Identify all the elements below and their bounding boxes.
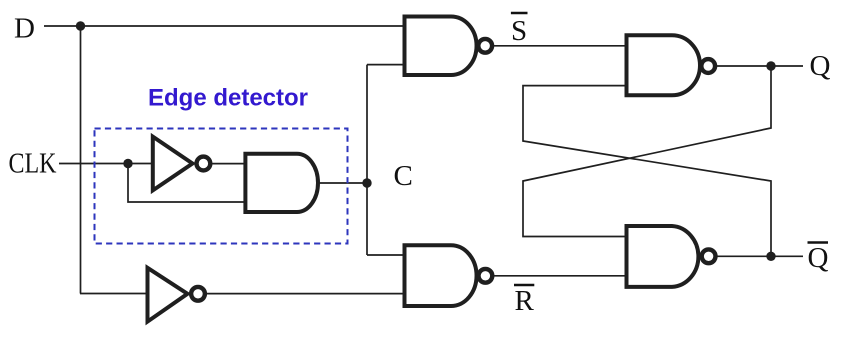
wire feedback Q-bar to NAND3 input B: [523, 86, 771, 257]
wire CLK input lead: [59, 163, 154, 165]
wire C to NAND1 input B: [367, 64, 404, 66]
wire S-bar net: NAND1 output to NAND3 input A: [493, 45, 626, 47]
inverter U2 bubble: [197, 157, 211, 171]
wire inverter U2 output to AND input: [212, 163, 245, 165]
label Q-bar: [808, 242, 829, 274]
svg-text:Edge detector: Edge detector: [148, 85, 308, 112]
wire C to NAND2 input A: [367, 254, 404, 256]
wire D vertical branch: [80, 26, 82, 294]
AND gate U1 (edge detector): [245, 154, 318, 212]
NAND1 bubble: [478, 39, 492, 53]
svg-text:Q: Q: [808, 242, 829, 274]
wire NAND3 output to Q: [716, 65, 803, 67]
svg-text:Q: Q: [810, 50, 831, 82]
NAND gate 3 (Q latch top): [627, 35, 701, 95]
wire CLK delayed branch down: [128, 164, 245, 203]
svg-text:R: R: [515, 285, 535, 317]
NAND4 bubble: [702, 249, 716, 263]
wire D input lead: [44, 25, 80, 27]
wire AND output to node C: [318, 182, 367, 184]
junction dot CLK branch: [123, 159, 132, 168]
NAND gate 2 (R): [405, 245, 477, 306]
junction dot D branch: [76, 21, 85, 30]
wire node C vertical: [366, 65, 368, 255]
svg-text:S: S: [511, 15, 527, 47]
NAND gate 4 (Q-bar latch bottom): [627, 226, 699, 287]
svg-text:D: D: [14, 12, 35, 44]
label S-bar: [511, 13, 528, 47]
inverter U3 (bottom): [148, 268, 188, 322]
wire D branch to inverter U3 input: [80, 293, 148, 295]
wire R-bar net: NAND2 output to NAND4 input B: [493, 275, 626, 277]
NAND gate 1 (S): [405, 17, 477, 76]
junction dot Q-bar: [766, 252, 775, 261]
wire NAND4 output to Q-bar: [717, 255, 804, 257]
inverter U2 (edge detector): [153, 137, 193, 191]
svg-text:C: C: [394, 160, 413, 192]
wire D top rail to NAND1 input A: [80, 25, 404, 27]
junction dot node C: [362, 178, 371, 187]
svg-text:CLK: CLK: [9, 148, 57, 180]
inverter U3 bubble: [191, 287, 205, 301]
NAND2 bubble: [479, 269, 493, 283]
NAND3 bubble: [701, 59, 715, 73]
wire inverter U3 output to NAND2 input B: [206, 293, 404, 295]
junction dot Q: [766, 61, 775, 70]
edge detector dashed box: [95, 129, 348, 244]
wire feedback Q to NAND4 input A: [523, 66, 771, 237]
label R-bar: [514, 285, 535, 317]
